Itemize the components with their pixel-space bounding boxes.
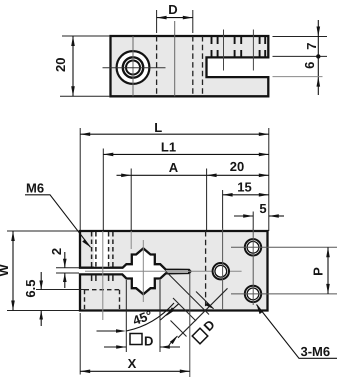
hidden square channel: [85, 290, 120, 309]
hidden line square hole right: [192, 36, 194, 96]
svg-text:L: L: [154, 120, 162, 135]
dimension X: [80, 273, 190, 377]
hole horizontal centerline top view: [103, 67, 166, 69]
slot centerline: [174, 21, 176, 96]
hidden line notch wall plan: [205, 231, 207, 310]
holes vertical centerline right / 5 extension: [252, 228, 254, 305]
svg-text:15: 15: [237, 180, 251, 195]
short diagonal strokes and curved arrow near diamond note: [169, 298, 197, 346]
hole vertical centerline top view: [132, 36, 134, 96]
M6 thread hidden dashes lower block: [92, 275, 113, 281]
dimension L1: [103, 140, 268, 231]
svg-text:3-M6: 3-M6: [301, 344, 331, 359]
dimension 15: [223, 180, 269, 232]
counterbore hole inner circle: [126, 61, 140, 75]
hidden line slot edge: [202, 36, 204, 96]
hole A: [245, 239, 261, 255]
hole B vertical centerline / 15 extension: [222, 228, 224, 310]
hole C: [245, 286, 261, 302]
hole A centerline horizontal / P extension top: [231, 246, 337, 248]
M6 thread hidden lines upper block: [92, 232, 113, 267]
svg-text:6: 6: [302, 62, 317, 69]
M6 hole centerline / L1 extension: [102, 231, 104, 320]
counterbore hole outer circle: [117, 51, 150, 84]
diagonal cross line: [178, 288, 228, 338]
dimension L: [80, 120, 269, 231]
svg-text:X: X: [128, 356, 137, 371]
45 degree axis diagonal from slot right tip: [166, 272, 209, 315]
svg-text:M6: M6: [26, 181, 44, 196]
svg-text:2: 2: [49, 248, 64, 255]
diamond D label: [192, 317, 218, 344]
slit centerline: [85, 270, 242, 272]
svg-text:W: W: [0, 264, 11, 277]
dimension 7: [273, 20, 328, 95]
castle vertical centerline: [142, 240, 144, 302]
square D dimension: [104, 280, 180, 352]
svg-text:P: P: [311, 267, 326, 276]
dimension 6.5: [23, 272, 85, 326]
tapped hole centerline 2 top view: [252, 30, 254, 71]
top view body: [111, 36, 269, 96]
svg-text:7: 7: [304, 43, 319, 50]
counterbore hole middle circle: [123, 57, 143, 77]
svg-text:A: A: [169, 160, 179, 175]
thread dashes upper prong: [212, 37, 266, 57]
plan view body with slit and castle slot: [80, 231, 268, 311]
svg-text:6.5: 6.5: [23, 280, 38, 298]
dimension 2: [49, 248, 79, 288]
svg-text:D: D: [144, 334, 153, 349]
dimension A: [117, 160, 207, 231]
hole B: [213, 263, 229, 279]
A extension centerline: [130, 231, 132, 249]
svg-text:5: 5: [259, 201, 266, 216]
svg-text:20: 20: [230, 159, 244, 174]
dimension 20 plan: [207, 159, 269, 231]
3-M6 label and leader: [257, 305, 338, 360]
hidden line square hole left: [156, 36, 158, 96]
dimension 20 top view: [53, 36, 110, 96]
M6 hole white core: [94, 232, 110, 267]
dimension D: [157, 2, 193, 33]
45 degree arc dimension: [97, 303, 179, 333]
diagonal leader with arrow to bottom edge: [196, 292, 214, 309]
dimension 6: [273, 62, 323, 87]
hole C centerline horizontal / P extension bottom: [231, 293, 337, 295]
dimension W: [0, 231, 79, 311]
svg-text:20: 20: [53, 58, 68, 72]
svg-text:D: D: [168, 2, 177, 17]
M6 label and leader: [25, 181, 91, 248]
dimension P: [311, 247, 330, 294]
svg-text:L1: L1: [161, 140, 176, 155]
dimension 5: [234, 201, 284, 231]
tapped hole centerline 1 top view: [223, 30, 225, 71]
channel white core: [166, 270, 188, 272]
